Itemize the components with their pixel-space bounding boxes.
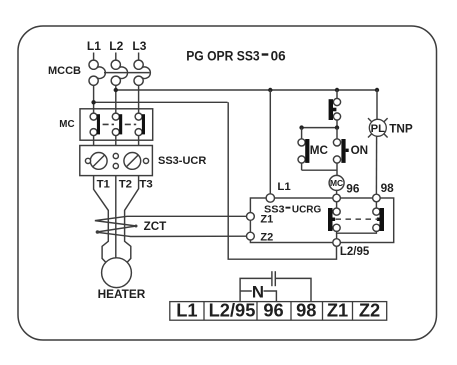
svg-text:L2/95: L2/95 (209, 299, 256, 320)
coil MC (329, 175, 344, 194)
wire drop to UCRG L1 terminal (269, 90, 271, 194)
terminal strip box (170, 302, 387, 321)
svg-text:T3: T3 (139, 178, 152, 190)
breaker MCCB pole 3 (134, 60, 150, 85)
wire L1 stub above breaker (93, 53, 95, 61)
svg-text:Z1: Z1 (327, 299, 348, 320)
contactor MC pole 1 (90, 109, 100, 140)
terminal Z1 circle (247, 213, 255, 221)
svg-text:PL: PL (371, 123, 385, 135)
junction dot control line at lamp (375, 88, 379, 92)
MCCB label (48, 65, 81, 77)
svg-text:Z2: Z2 (359, 299, 380, 320)
svg-text:MC: MC (59, 119, 74, 130)
svg-text:L2: L2 (109, 39, 123, 53)
CT left circle (90, 153, 107, 170)
wire branch rejoin (302, 169, 337, 171)
svg-text:98: 98 (381, 181, 395, 195)
svg-text:PG OPR SS3: PG OPR SS3 (186, 48, 260, 63)
wire contact common link (337, 231, 377, 233)
lamp PL (368, 90, 388, 194)
svg-text:96: 96 (346, 181, 360, 195)
junction dot L2 feed (114, 88, 118, 92)
node L2/95 label (340, 246, 370, 258)
title PG OPR SS3-06 (186, 48, 285, 63)
node T2 label (119, 178, 132, 190)
svg-text:T2: T2 (119, 178, 132, 190)
svg-text:HEATER: HEATER (98, 287, 146, 301)
center terminal circle lower (113, 163, 118, 168)
strip divider 5 (352, 302, 354, 321)
wire L2 control feed horizontal (116, 89, 377, 91)
terminal Z2 circle (247, 232, 255, 240)
strip cell L1 (176, 299, 197, 320)
MC label (59, 119, 74, 130)
svg-text:Z1: Z1 (260, 213, 273, 225)
svg-text:N: N (252, 283, 264, 302)
node 96 label (346, 181, 360, 195)
svg-text:UCRG: UCRG (292, 205, 321, 216)
heater circle (102, 258, 132, 288)
svg-text:T1: T1 (97, 178, 111, 190)
border frame (18, 26, 437, 340)
center terminal circle upper (113, 153, 118, 158)
svg-text:L1: L1 (176, 299, 197, 320)
svg-text:L1: L1 (87, 39, 101, 53)
terminal L2/95 circle (333, 239, 341, 247)
node L1 terminal label (277, 181, 291, 193)
svg-text:L1: L1 (277, 181, 291, 193)
ZCT label (144, 220, 168, 233)
node 98 label (381, 181, 395, 195)
svg-text:06: 06 (271, 48, 286, 63)
contactor MC box (80, 109, 153, 140)
node L1 label (87, 39, 101, 53)
strip divider 4 (322, 302, 324, 321)
wire T2 straight (115, 176, 117, 258)
wire L1 control feed horizontal (94, 101, 228, 103)
TNP label (389, 121, 413, 135)
svg-text:96: 96 (263, 299, 283, 320)
strip cell Z1 (327, 299, 348, 320)
junction dot control line at L1 drop (268, 88, 272, 92)
node T1 label (97, 178, 111, 190)
breaker MCCB pole 1 (89, 60, 105, 85)
strip divider 2 (256, 302, 258, 321)
junction dot link left (299, 125, 303, 129)
relay SS3-UCRG box (250, 198, 393, 243)
strip divider 3 (290, 302, 292, 321)
capacitor C snubber (240, 271, 311, 302)
ON label (351, 144, 369, 157)
relay SS3-UCR box (80, 146, 153, 176)
wire pole3 between boxes (138, 140, 140, 145)
svg-text:MC: MC (330, 178, 343, 188)
wire L3 breaker to contactor (138, 85, 140, 109)
strip cell Z2 (359, 299, 380, 320)
svg-text:ON: ON (351, 144, 369, 157)
svg-text:Z2: Z2 (260, 232, 273, 244)
wire pole2 between boxes (115, 140, 117, 145)
wire L2 breaker to contactor (115, 85, 117, 109)
strip cell L2/95 (209, 299, 256, 320)
terminal L1 circle (266, 194, 274, 202)
svg-text:MCCB: MCCB (48, 65, 81, 77)
svg-text:L3: L3 (132, 39, 146, 53)
wire L2 stub above breaker (115, 53, 117, 61)
relay contact 96 (328, 202, 340, 232)
node T3 label (139, 178, 152, 190)
wire parallel branch top link (302, 127, 337, 129)
SS3-UCRG label (264, 205, 321, 216)
relay contact linkage dashes (336, 218, 378, 220)
MC aux label (310, 144, 329, 157)
HEATER label (98, 287, 146, 301)
junction dot control line at OFF button (335, 88, 339, 92)
node L2 label (109, 39, 123, 53)
CT left terminal circle (85, 158, 90, 163)
wire L1 breaker to contactor (93, 85, 95, 109)
node Z2 label (260, 232, 273, 244)
relay contact 98 (373, 202, 384, 232)
wire T1 funnel (94, 176, 109, 265)
strip cell 96 (263, 299, 283, 320)
wire L1 phase down-across to L2/95 (228, 102, 336, 259)
svg-text:SS3-UCR: SS3-UCR (158, 155, 206, 167)
ZCT winding zigzag (95, 216, 251, 236)
node L3 label (132, 39, 146, 53)
pushbutton OFF (329, 90, 341, 128)
contactor MC pole 3 (135, 109, 145, 140)
svg-text:L2/95: L2/95 (340, 246, 370, 258)
SS3-UCR label (158, 155, 206, 167)
svg-text:TNP: TNP (389, 121, 413, 135)
svg-text:ZCT: ZCT (144, 220, 168, 233)
MCCB trip bar (104, 72, 150, 74)
CT right circle (124, 153, 141, 170)
svg-text:MC: MC (310, 144, 329, 157)
contactor MC pole 2 (112, 109, 122, 140)
terminal 98 circle (373, 194, 381, 202)
svg-text:98: 98 (296, 299, 316, 320)
contactor linkage dashes 1-2 (103, 123, 114, 125)
pushbutton ON (333, 128, 348, 176)
contactor linkage dashes 2-3 (125, 123, 136, 125)
wire pole1 between boxes (93, 140, 95, 145)
CT right terminal circle (143, 158, 148, 163)
junction dot L1 feed (91, 100, 95, 104)
strip cell 98 (296, 299, 316, 320)
varistor N branch (240, 283, 276, 302)
terminal 96 circle (333, 194, 341, 202)
wire L3 stub above breaker (138, 53, 140, 61)
wire T3 funnel (125, 176, 139, 265)
node Z1 label (260, 213, 273, 225)
wire common to L2/95 (336, 233, 338, 239)
junction dot link right (335, 125, 339, 129)
strip divider 1 (203, 302, 205, 321)
contact MC auxiliary (298, 128, 309, 171)
breaker MCCB pole 2 (111, 60, 127, 85)
